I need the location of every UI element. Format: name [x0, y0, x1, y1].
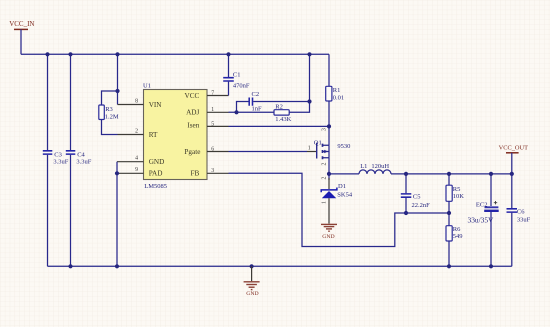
svg-text:RT: RT: [149, 131, 158, 139]
svg-text:VCC: VCC: [185, 92, 200, 100]
svg-text:1.2M: 1.2M: [105, 114, 119, 121]
svg-text:EC2: EC2: [476, 201, 488, 208]
capacitor C3: [43, 151, 69, 166]
wire VIN drop: [117, 54, 119, 104]
resistor R2: [274, 103, 292, 123]
ground symbol at D1: [321, 224, 337, 239]
pin 7 VCC: [185, 91, 229, 101]
capacitor C5: [401, 193, 430, 209]
junction VCC_OUT/C6: [510, 172, 514, 176]
resistor R3: [99, 105, 119, 121]
pin 1 ADJ: [186, 107, 228, 117]
wire switch node to L1: [329, 173, 359, 175]
svg-text:2: 2: [321, 163, 327, 166]
svg-text:10K: 10K: [453, 193, 465, 200]
svg-text:470nF: 470nF: [233, 82, 250, 89]
wire C4 branch upper: [70, 54, 72, 150]
junction R3 branch: [115, 89, 119, 93]
diode D1 SK54: [321, 177, 353, 224]
junction switch node: [327, 172, 331, 176]
junction rail C3 top x48: [45, 52, 49, 56]
wire R1 bottom to Q1 source: [328, 101, 330, 145]
wire bottom ground rail: [48, 265, 512, 267]
pin 5 Isen: [187, 121, 228, 129]
junction C4/rail: [68, 264, 72, 268]
junction output/EC2: [489, 172, 493, 176]
svg-text:VCC_IN: VCC_IN: [9, 20, 34, 28]
pin 9 PAD: [117, 167, 162, 177]
svg-text:Isen: Isen: [187, 122, 199, 130]
pin 2 RT: [118, 128, 159, 139]
svg-text:4: 4: [135, 156, 138, 162]
svg-text:R3: R3: [105, 106, 113, 113]
svg-text:L1: L1: [360, 163, 367, 170]
wire C1 upper: [228, 54, 230, 77]
capacitor EC2 electrolytic: [468, 201, 499, 224]
wire Pgate net: [229, 151, 308, 153]
svg-text:GND: GND: [322, 234, 334, 240]
resistor R6: [446, 226, 463, 241]
wire C6 lower: [511, 213, 513, 267]
svg-text:C5: C5: [413, 193, 421, 200]
svg-text:D1: D1: [338, 183, 346, 190]
junction IC GND/rail: [115, 264, 119, 268]
svg-text:ADJ: ADJ: [186, 109, 199, 117]
junction Isen/R1: [327, 124, 331, 128]
svg-text:1nF: 1nF: [252, 105, 263, 112]
svg-text:9530: 9530: [337, 143, 350, 150]
svg-text:PAD: PAD: [149, 170, 163, 178]
svg-text:GND: GND: [149, 158, 165, 166]
junction rail C4 top: [68, 52, 72, 56]
svg-text:C3: C3: [54, 151, 62, 158]
wire C2 branch left: [237, 102, 249, 113]
wire R5 bottom to node: [448, 201, 450, 225]
svg-text:3.3uF: 3.3uF: [53, 159, 68, 166]
svg-text:GND: GND: [246, 291, 258, 297]
svg-text:3: 3: [211, 168, 214, 174]
ground symbol bottom center: [244, 266, 260, 297]
svg-text:549: 549: [453, 233, 463, 240]
junction R5/R6/FB: [447, 211, 451, 215]
pin 3 FB: [191, 168, 229, 178]
wire output line: [391, 173, 512, 175]
wire GND/PAD vertical to bottom rail: [116, 162, 118, 267]
svg-text:2: 2: [135, 128, 138, 134]
wire R5 top: [448, 174, 450, 185]
wire EC2 upper: [490, 174, 492, 206]
svg-text:R5: R5: [453, 186, 461, 193]
wire C5 upper: [405, 174, 407, 193]
svg-text:R6: R6: [453, 226, 461, 233]
wire top VCC rail: [21, 53, 329, 55]
power port VCC_OUT: [499, 145, 529, 174]
svg-text:9: 9: [135, 167, 138, 173]
junction C5/feedback: [404, 211, 408, 215]
junction ADJ/C2 left: [234, 110, 238, 114]
svg-text:22.2nF: 22.2nF: [412, 202, 431, 209]
junction rail vertical A: [307, 52, 311, 56]
svg-text:6: 6: [211, 146, 214, 152]
svg-text:R2: R2: [275, 103, 283, 110]
resistor R1: [326, 86, 344, 101]
capacitor C6: [507, 208, 531, 223]
svg-text:R1: R1: [333, 87, 341, 94]
svg-text:C6: C6: [517, 208, 525, 215]
wire C3 branch upper: [47, 54, 49, 150]
svg-text:120uH: 120uH: [371, 163, 389, 170]
svg-text:1.43K: 1.43K: [275, 116, 291, 123]
svg-text:VIN: VIN: [149, 101, 163, 109]
resistor R5: [446, 185, 464, 201]
wire FB net loop: [229, 173, 450, 246]
svg-text:5: 5: [211, 121, 214, 127]
svg-text:1: 1: [211, 107, 214, 113]
svg-text:7: 7: [211, 91, 214, 97]
svg-text:FB: FB: [191, 170, 200, 178]
wire R3 bottom branch: [102, 120, 118, 135]
inductor L1: [359, 163, 391, 174]
svg-text:2: 2: [322, 177, 328, 180]
svg-text:0.01: 0.01: [333, 95, 344, 102]
wire C1 lower to VCC pin: [228, 82, 230, 96]
junction EC2/rail: [489, 264, 493, 268]
svg-text:8: 8: [135, 98, 138, 104]
svg-text:LM5085: LM5085: [144, 183, 167, 190]
junction C2/vertical A: [307, 99, 311, 103]
svg-text:33u/35V: 33u/35V: [468, 215, 495, 224]
wire R1 top: [328, 54, 330, 86]
power port VCC_IN: [9, 20, 34, 54]
svg-text:C4: C4: [77, 151, 85, 158]
svg-text:C2: C2: [252, 91, 260, 98]
pin 8 VIN: [118, 98, 163, 109]
wire Isen net: [229, 125, 330, 127]
wire Q1 drain down: [328, 158, 330, 180]
wire C5 lower: [405, 198, 407, 213]
wire R2 right to vertical A: [289, 54, 309, 112]
pin 4 GND: [117, 156, 164, 166]
pin 6 Pgate: [184, 146, 228, 155]
wire EC2 lower: [490, 212, 492, 266]
capacitor C2: [249, 91, 262, 112]
svg-text:33uF: 33uF: [517, 217, 531, 224]
svg-text:U1: U1: [143, 83, 151, 90]
svg-text:3.3uF: 3.3uF: [76, 159, 91, 166]
junction R6/rail: [447, 264, 451, 268]
svg-text:3: 3: [321, 128, 327, 131]
junction L1/C5: [404, 172, 408, 176]
wire R3 top branch: [102, 91, 118, 105]
wire C2 branch right: [253, 101, 309, 103]
svg-text:SK54: SK54: [337, 192, 353, 199]
svg-text:VCC_OUT: VCC_OUT: [499, 145, 529, 152]
capacitor C1: [223, 71, 250, 89]
svg-text:C1: C1: [233, 71, 241, 78]
IC U1 LM5085: [143, 83, 207, 190]
wire R6 bottom: [448, 241, 450, 266]
capacitor C4: [66, 151, 92, 166]
wire ADJ net: [229, 111, 275, 113]
junction rail VIN drop: [115, 52, 119, 56]
junction output/R5: [447, 172, 451, 176]
svg-text:1: 1: [308, 145, 311, 151]
wire C3 branch lower: [47, 155, 49, 266]
transistor Q1 PMOS 9530: [307, 128, 350, 166]
junction rail C1: [226, 52, 230, 56]
svg-text:Q1: Q1: [314, 139, 322, 146]
wire C6 upper: [511, 174, 513, 208]
junction GND symbol/rail: [250, 264, 254, 268]
svg-text:Pgate: Pgate: [184, 148, 200, 156]
junction PAD joins GND vertical: [115, 171, 119, 175]
wire C4 branch lower: [70, 155, 72, 266]
svg-text:1: 1: [322, 201, 328, 204]
